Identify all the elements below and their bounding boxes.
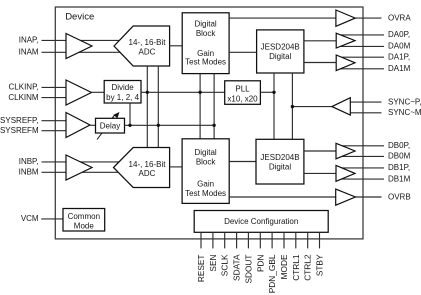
svg-text:INAM: INAM [19,48,39,57]
wire Digital Block A to JESD A [229,51,257,53]
svg-text:Test Modes: Test Modes [185,57,226,66]
wire JESD A to DA0 buffer [304,40,336,42]
wire ADC B to Digital Block B [170,166,183,168]
node DA1P label [388,52,410,61]
wire SYNC to JESD [292,106,332,108]
node SYSREFM label [0,126,39,135]
JESD204B block A [257,30,304,73]
wire PLL output [260,91,274,93]
DB0 output buffer [336,143,355,159]
OVRA output buffer [336,10,355,26]
pin CTRL2 [303,232,313,280]
pin RESET [196,232,206,282]
device box [55,7,363,239]
svg-text:14-, 16-Bit: 14-, 16-Bit [129,160,167,169]
svg-text:Digital: Digital [269,52,291,61]
JESD204B block B [256,139,304,184]
pin STBY [315,232,325,276]
junction PLL JESD [272,91,275,94]
svg-text:SDOUT: SDOUT [243,255,253,284]
wire DB0M [340,155,384,157]
svg-text:ADC: ADC [139,169,156,178]
node DA0M label [388,42,411,51]
node OVRB label [388,192,411,201]
node CLKINM label [8,93,39,102]
svg-text:CTRL1: CTRL1 [291,254,301,281]
svg-text:by 1, 2, 4: by 1, 2, 4 [106,93,139,102]
svg-text:CTRL2: CTRL2 [303,254,313,281]
svg-text:SYSREFP,: SYSREFP, [0,116,39,125]
node INAP label [19,36,39,45]
svg-text:Common: Common [68,212,100,221]
PLL block [225,81,261,105]
wire SYSREFM [42,130,77,132]
wire JESD B to DB1 buffer [304,172,336,174]
delay block with adjust arrow [96,112,125,140]
node SYNC~M label [388,108,421,117]
wire sysref digital vertical [213,74,215,139]
svg-text:Digital: Digital [194,19,216,28]
svg-text:INAP,: INAP, [19,36,39,45]
svg-text:Delay: Delay [100,122,120,131]
junction clock digital [198,91,201,94]
wire ADC A to Digital Block A [170,45,183,47]
wire DA0P [340,34,384,36]
svg-text:x10, x20: x10, x20 [227,94,258,103]
device configuration block [194,211,328,233]
svg-text:DB1P,: DB1P, [388,163,410,172]
node SYSREFP label [0,116,39,125]
amplifier buffer B [66,155,92,180]
junction delay-divider [128,124,131,127]
svg-text:Digital: Digital [269,162,291,171]
pin MODE [279,232,289,279]
junction sysref delay line [157,124,160,127]
svg-text:INBP,: INBP, [19,157,39,166]
pin PDN [255,232,265,272]
node DA0P label [388,30,410,39]
svg-text:PLL: PLL [235,85,250,94]
svg-text:PDN: PDN [255,255,265,273]
svg-text:DA0M: DA0M [388,42,411,51]
wire JESD A-B vertical 2 [291,73,293,139]
svg-text:Block: Block [196,29,217,38]
svg-text:JESD204B: JESD204B [260,153,299,162]
node CLKINP label [9,83,39,92]
node INBP label [19,157,39,166]
svg-text:DA0P,: DA0P, [388,30,410,39]
junction clock divider line [146,91,149,94]
wire CLKINP [42,86,79,88]
svg-text:SYNC~M: SYNC~M [388,108,421,117]
svg-text:SYNC~P,: SYNC~P, [388,97,421,106]
svg-text:RESET: RESET [196,255,206,283]
svg-text:STBY: STBY [315,254,325,276]
node DB0P label [388,141,410,150]
wire sysref buffer to delay [90,124,96,126]
svg-text:CLKINP,: CLKINP, [9,83,39,92]
svg-text:VCM: VCM [21,214,39,223]
wire DB0P [340,145,384,147]
svg-text:INBM: INBM [19,168,39,177]
svg-text:Divide: Divide [111,83,134,92]
wire DA1M [340,68,384,70]
wire DB1M [340,178,384,180]
wire Digital Block B to JESD B [229,161,256,163]
wire DA1P [340,56,384,58]
ADC B [114,148,170,188]
wire delay output bus [125,124,215,126]
wire INAP [42,39,120,41]
svg-text:MODE: MODE [279,254,289,279]
SYNC input buffer [332,98,350,115]
pin SCLK [220,232,230,276]
DA0 output buffer [336,33,355,48]
node INAM label [19,48,39,57]
clock buffer [66,80,92,105]
svg-text:SYSREFM: SYSREFM [0,126,39,135]
svg-text:ADC: ADC [139,47,156,56]
svg-text:Gain: Gain [197,179,214,188]
wire INBP [42,161,120,163]
wire OVRB [229,196,381,198]
digital block A [182,13,229,74]
svg-text:OVRB: OVRB [388,192,411,201]
wire sysref A-B vertical [157,66,159,148]
wire JESD A to DA1 buffer [304,62,336,64]
svg-text:Digital: Digital [194,148,216,157]
wire divider sync (delay to divider) [129,103,131,125]
svg-text:Mode: Mode [74,221,95,230]
wire SYNC~P [350,101,381,103]
svg-text:SDATA: SDATA [232,254,242,281]
node OVRA label [388,13,411,22]
svg-text:DB0M: DB0M [388,152,411,161]
wire OVRA [229,17,381,19]
wire clock buffer to divider [92,91,105,93]
OVRB output buffer [336,189,356,205]
node SYNC~P label [388,97,421,106]
wire SYNC~M [350,112,381,114]
wire JESD B to DB0 buffer [304,150,336,152]
pin PDN_GBL [267,232,277,293]
svg-text:DA1P,: DA1P, [388,52,410,61]
divider block [104,81,141,104]
wire clock A-B vertical [146,66,148,148]
svg-text:14-, 16-Bit: 14-, 16-Bit [129,38,167,47]
wire SYSREFP [42,120,77,122]
wire clock digital vertical [199,74,201,139]
svg-text:OVRA: OVRA [388,13,411,22]
wire INBM [42,171,120,173]
junction sysref digital [212,124,215,127]
node DB1M label [388,174,411,183]
node VCM label [21,214,39,223]
pin SEN [208,232,218,271]
pin SDOUT [243,232,253,283]
node DA1M label [388,64,411,73]
pin SDATA [232,232,242,281]
ADC A [114,26,170,66]
wire DB1P [340,167,384,169]
wire divider output to PLL [141,91,225,93]
pin CTRL1 [291,232,301,280]
wire CLKINM [42,97,79,99]
svg-text:Block: Block [196,158,217,167]
svg-text:DA1M: DA1M [388,64,411,73]
wire DA0M [340,45,384,47]
node DB1P label [388,163,410,172]
sysref buffer [66,113,90,138]
wire VCM [41,218,63,220]
svg-text:SCLK: SCLK [220,254,230,276]
svg-text:SEN: SEN [208,254,218,271]
svg-text:Device Configuration: Device Configuration [224,217,298,226]
svg-text:Device: Device [65,11,94,22]
wire JESD A-B vertical 1 [273,73,275,139]
DA1 output buffer [336,55,355,71]
svg-text:JESD204B: JESD204B [261,43,300,52]
digital block B [182,139,229,204]
node DB0M label [388,152,411,161]
amplifier buffer A [66,34,92,59]
svg-text:PDN_GBL: PDN_GBL [267,254,277,293]
svg-text:DB0P,: DB0P, [388,141,410,150]
svg-text:Test Modes: Test Modes [185,189,226,198]
node INBM label [19,168,39,177]
common mode block [63,209,105,232]
DB1 output buffer [336,165,355,181]
wire INAM [42,51,120,53]
svg-text:DB1M: DB1M [388,174,411,183]
junction SYNC JESD [291,105,294,108]
svg-text:CLKINM: CLKINM [8,93,39,102]
